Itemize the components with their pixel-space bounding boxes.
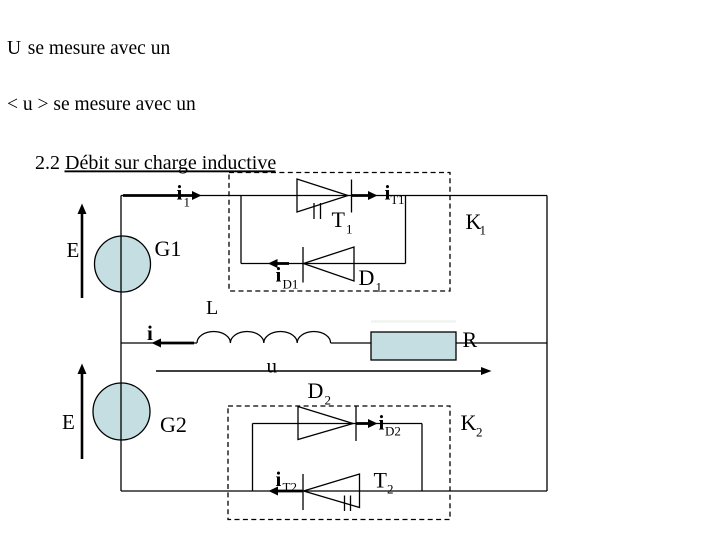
wire right vertical (x=547) (546, 196, 548, 492)
resistor R (371, 332, 456, 360)
svg-text:u: u (267, 354, 278, 378)
wire middle branch left segment (121, 342, 197, 344)
svg-text:2: 2 (387, 482, 394, 497)
svg-text:2: 2 (325, 393, 332, 408)
svg-text:G1: G1 (155, 236, 182, 261)
svg-text:T1: T1 (391, 193, 405, 207)
svg-text:G2: G2 (160, 412, 187, 437)
svg-text:R: R (463, 327, 478, 352)
svg-text:1: 1 (376, 280, 383, 295)
label K1 (466, 209, 487, 238)
svg-text:U: U (7, 38, 21, 59)
svg-text:D: D (359, 265, 375, 290)
svg-text:i: i (379, 411, 385, 435)
wire bottom (y=491) (121, 490, 547, 492)
current arrow iD2 (357, 419, 378, 428)
svg-text:i: i (177, 181, 183, 205)
svg-text:L: L (206, 297, 218, 319)
svg-text:K: K (461, 410, 477, 435)
label D1 (359, 265, 383, 295)
dashed box K1 (229, 173, 450, 292)
label i1 (177, 181, 191, 210)
current arrow iT2 (269, 487, 304, 496)
wire R to right vertical (456, 342, 547, 344)
current arrow iT1 (352, 191, 378, 200)
faint artifact line above R (371, 320, 456, 322)
label T2 (374, 468, 394, 497)
label iT1 (385, 181, 405, 208)
diode D2 (298, 406, 356, 441)
wire loop1 left vertical (240, 196, 242, 264)
current arrow i1 (123, 191, 202, 200)
source G2 (93, 383, 150, 440)
label D2 (308, 378, 332, 408)
svg-text:E: E (67, 238, 80, 262)
label iD2 (379, 411, 401, 439)
wire loop2 right vertical (421, 424, 423, 492)
label iD1 (276, 263, 299, 292)
svg-text:i: i (276, 263, 282, 287)
label K2 (461, 410, 483, 440)
svg-text:D1: D1 (283, 277, 299, 292)
svg-text:1: 1 (346, 222, 353, 237)
title underline (65, 170, 276, 172)
current arrow i (152, 339, 195, 348)
svg-text:T2: T2 (283, 480, 297, 495)
wire inductor to R (331, 342, 371, 344)
svg-text:i: i (276, 467, 282, 491)
current arrow iD1 (268, 259, 289, 268)
wire loop1 right vertical (405, 196, 407, 264)
wire loop1 bottom branch (241, 263, 406, 265)
svg-text:< u > se mesure avec un: < u > se mesure avec un (7, 94, 196, 115)
wire top (y=195.5) (121, 195, 547, 197)
svg-text:D: D (308, 378, 324, 403)
arrow E top (78, 204, 87, 299)
wire left vertical (x=121) (120, 196, 122, 492)
svg-text:2: 2 (476, 425, 483, 440)
arrow u (156, 367, 492, 375)
thyristor T2 (303, 474, 360, 511)
inductor L (197, 332, 331, 344)
label iT2 (276, 467, 297, 495)
wire loop2 left vertical (252, 424, 254, 492)
dashed box K2 (228, 406, 450, 520)
svg-text:E: E (62, 410, 75, 434)
svg-text:D2: D2 (385, 424, 401, 439)
label T1 (332, 207, 353, 237)
arrow E bottom (78, 364, 87, 460)
thyristor T1 (297, 179, 352, 219)
wire loop2 top branch (253, 423, 423, 425)
svg-text:T: T (332, 207, 346, 232)
svg-text:se mesure avec un: se mesure avec un (28, 38, 171, 59)
source G1 (95, 236, 151, 292)
svg-text:T: T (374, 468, 388, 493)
svg-text:1: 1 (480, 223, 487, 238)
svg-text:1: 1 (184, 195, 191, 210)
diode D1 (303, 247, 354, 283)
svg-text:i: i (147, 321, 153, 345)
